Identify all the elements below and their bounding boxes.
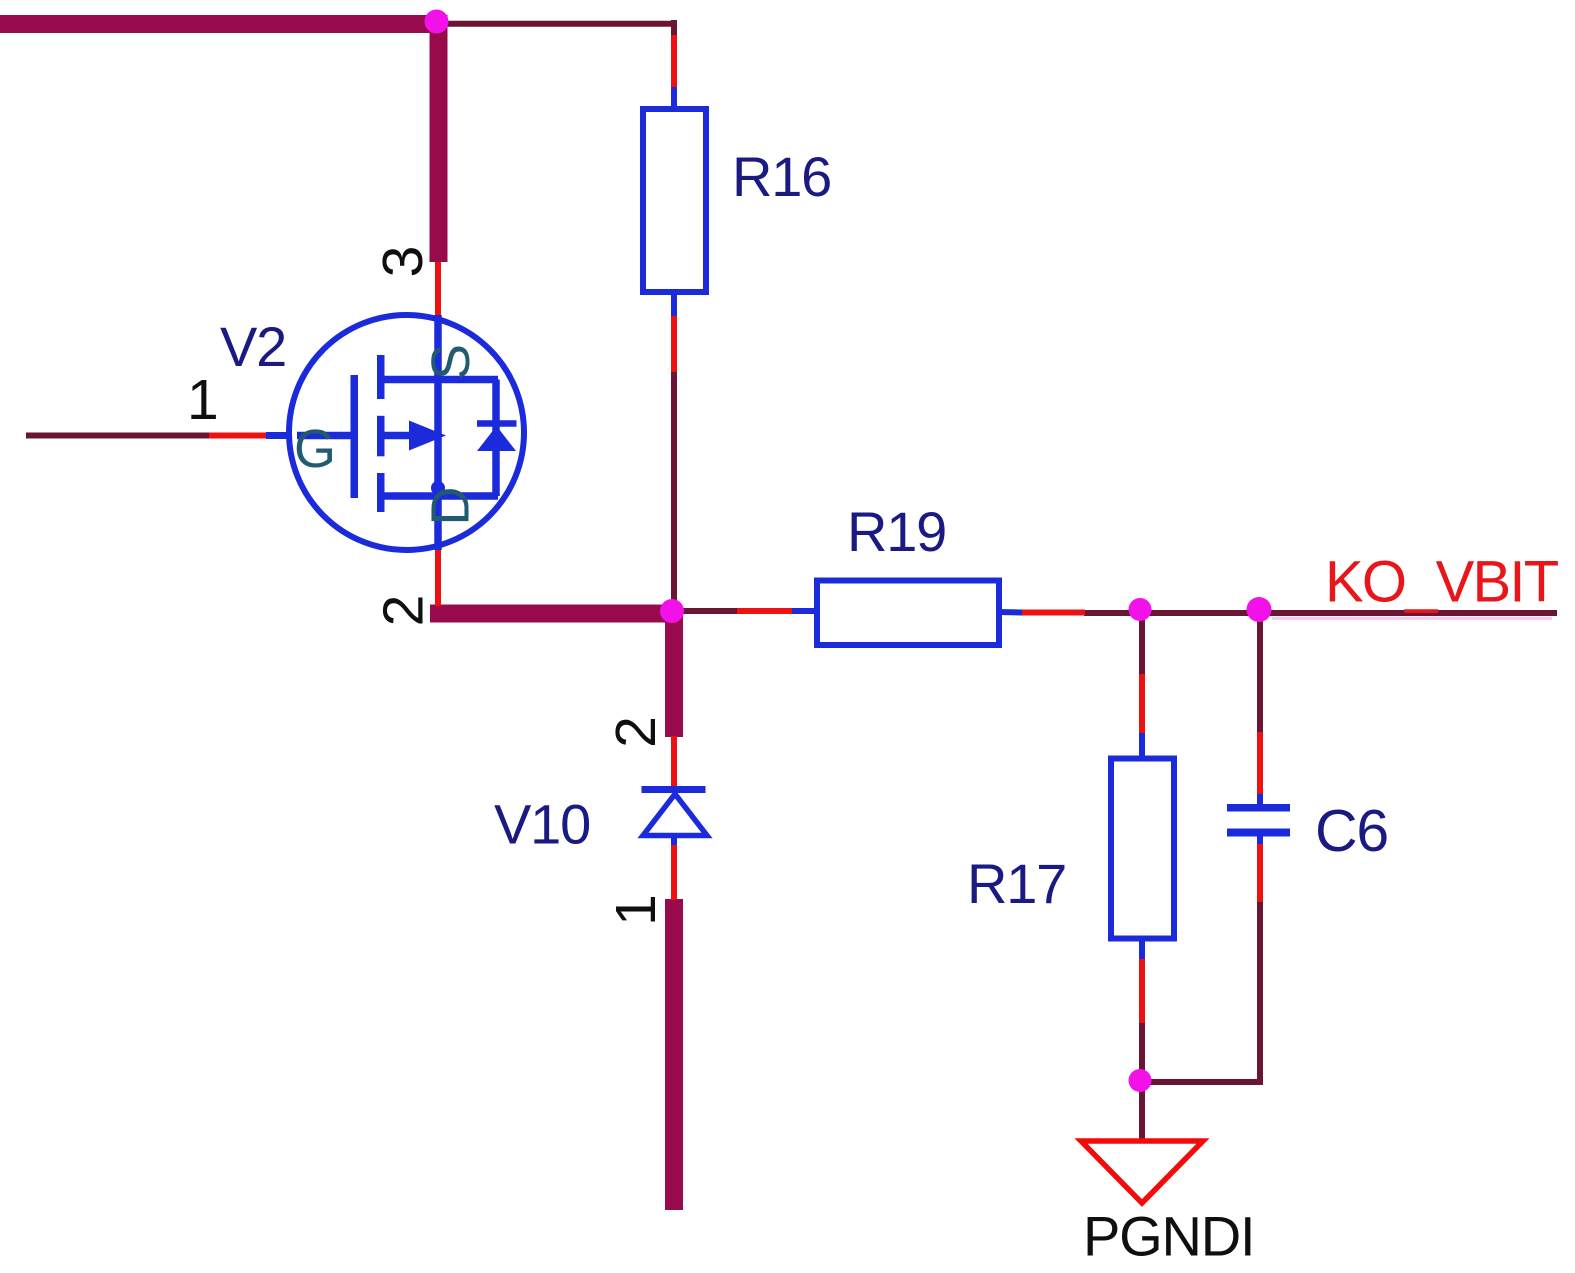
svg-text:KO_VBIT: KO_VBIT xyxy=(1325,550,1559,615)
svg-text:S: S xyxy=(421,344,481,380)
svg-text:V10: V10 xyxy=(494,793,590,856)
svg-text:C6: C6 xyxy=(1315,798,1388,864)
svg-text:R16: R16 xyxy=(732,145,831,208)
svg-text:R19: R19 xyxy=(847,500,946,563)
svg-text:3: 3 xyxy=(371,246,435,278)
svg-text:1: 1 xyxy=(187,368,219,432)
svg-text:D: D xyxy=(421,487,481,526)
svg-text:V2: V2 xyxy=(220,315,286,378)
svg-text:1: 1 xyxy=(604,894,668,926)
svg-text:G: G xyxy=(294,419,336,479)
svg-text:R17: R17 xyxy=(967,852,1066,915)
svg-text:2: 2 xyxy=(604,716,668,748)
svg-text:2: 2 xyxy=(372,595,436,627)
svg-text:PGNDI: PGNDI xyxy=(1083,1205,1254,1268)
